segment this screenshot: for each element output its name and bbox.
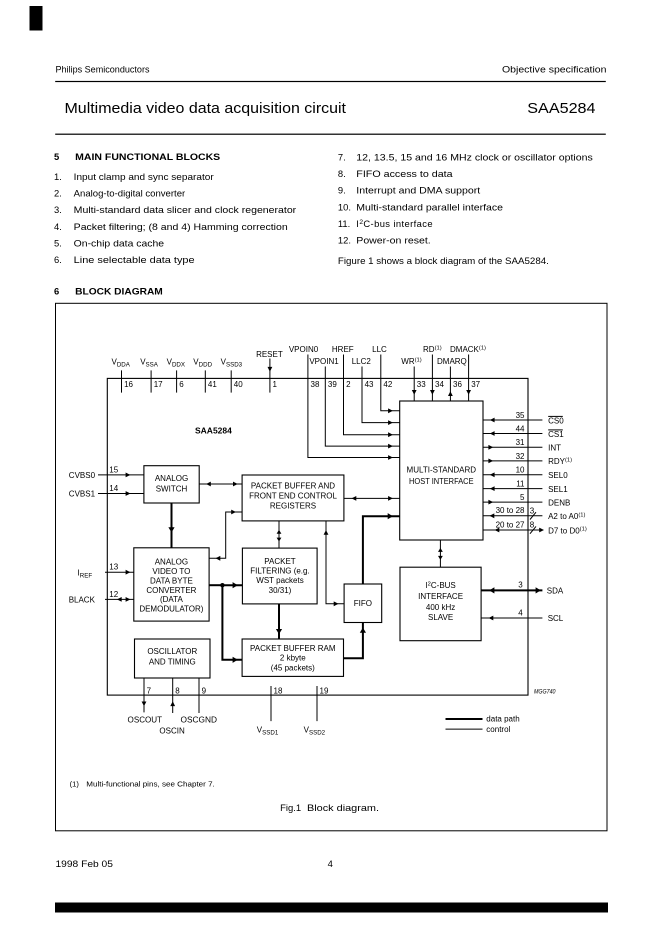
svg-text:Input clamp and sync separator: Input clamp and sync separator xyxy=(74,171,214,182)
svg-text:AND TIMING: AND TIMING xyxy=(149,657,196,666)
wire RAM to FIFO (data path) xyxy=(344,623,367,659)
block PACKET FILTERING xyxy=(242,548,317,604)
svg-text:12, 13.5, 15 and 16 MHz clock: 12, 13.5, 15 and 16 MHz clock or oscilla… xyxy=(356,152,593,163)
legend data path xyxy=(446,715,520,724)
svg-text:33: 33 xyxy=(417,380,426,389)
wire junction to packet buffer RAM (data path) xyxy=(222,585,242,663)
svg-text:3: 3 xyxy=(530,506,535,515)
svg-text:Multi-functional pins, see Cha: Multi-functional pins, see Chapter 7. xyxy=(86,780,215,789)
svg-text:LLC2: LLC2 xyxy=(352,357,372,366)
list items 7-12 xyxy=(338,152,593,246)
svg-text:1998 Feb 05: 1998 Feb 05 xyxy=(56,858,113,869)
svg-text:FIFO access to data: FIFO access to data xyxy=(356,168,453,179)
svg-text:HOST INTERFACE: HOST INTERFACE xyxy=(409,477,474,486)
svg-text:5.: 5. xyxy=(54,238,62,249)
svg-text:Objective specification: Objective specification xyxy=(502,63,607,74)
svg-text:SEL0: SEL0 xyxy=(548,471,568,480)
svg-text:Multi-standard parallel interf: Multi-standard parallel interface xyxy=(356,201,503,212)
svg-text:Block diagram.: Block diagram. xyxy=(307,802,379,813)
pin VDDX 6 xyxy=(167,358,185,393)
svg-text:12: 12 xyxy=(109,590,118,599)
svg-text:35: 35 xyxy=(516,411,525,420)
svg-text:Packet filtering; (8 and 4) Ha: Packet filtering; (8 and 4) Hamming corr… xyxy=(74,221,288,232)
svg-text:8: 8 xyxy=(175,686,180,695)
svg-text:SLAVE: SLAVE xyxy=(428,613,453,622)
svg-text:34: 34 xyxy=(435,380,444,389)
pin VSSA 17 xyxy=(140,358,163,393)
svg-text:OSCGND: OSCGND xyxy=(181,716,218,725)
wire packet buffer to host interface (bidirectional) xyxy=(344,496,400,501)
svg-text:MAIN FUNCTIONAL BLOCKS: MAIN FUNCTIONAL BLOCKS xyxy=(75,151,220,162)
svg-text:Multimedia video data acquisit: Multimedia video data acquisition circui… xyxy=(65,101,347,117)
pin VPOIN0 38 xyxy=(289,345,400,460)
svg-text:12.: 12. xyxy=(338,235,351,246)
svg-text:18: 18 xyxy=(274,686,283,695)
svg-text:SEL1: SEL1 xyxy=(548,485,568,494)
pin SCL 4 xyxy=(481,608,564,623)
svg-text:40: 40 xyxy=(234,380,243,389)
svg-text:5: 5 xyxy=(520,493,525,502)
svg-text:SCL: SCL xyxy=(548,614,564,623)
svg-text:On-chip data cache: On-chip data cache xyxy=(74,238,164,249)
svg-text:FILTERING (e.g.: FILTERING (e.g. xyxy=(250,567,309,576)
svg-text:44: 44 xyxy=(516,424,525,433)
svg-text:PACKET BUFFER AND: PACKET BUFFER AND xyxy=(251,482,335,491)
svg-text:14: 14 xyxy=(109,484,118,493)
svg-text:11.: 11. xyxy=(338,218,350,229)
svg-text:Line selectable data type: Line selectable data type xyxy=(74,254,195,265)
svg-text:2.: 2. xyxy=(54,188,62,199)
pin SEL0 10 xyxy=(483,466,568,480)
pin VSSD2 19 xyxy=(304,686,329,736)
pin VDDA 16 xyxy=(112,358,134,393)
svg-text:(1): (1) xyxy=(70,780,80,789)
svg-text:MGG740: MGG740 xyxy=(534,689,556,695)
svg-text:RESET: RESET xyxy=(256,350,283,359)
svg-text:19: 19 xyxy=(320,686,329,695)
block I2C-BUS INTERFACE 400 kHz SLAVE xyxy=(400,567,481,641)
svg-text:CS1: CS1 xyxy=(548,430,564,439)
svg-text:(DATA: (DATA xyxy=(160,595,183,604)
svg-text:CONVERTER: CONVERTER xyxy=(146,586,196,595)
bus A2 to A0 (pins 30 to 28) xyxy=(483,506,586,521)
svg-text:CVBS1: CVBS1 xyxy=(69,490,96,499)
svg-text:36: 36 xyxy=(453,380,462,389)
title rule xyxy=(55,134,606,135)
svg-text:CS0: CS0 xyxy=(548,416,564,425)
pin RESET 1 xyxy=(256,350,283,393)
pin LLC 42 xyxy=(372,345,400,413)
svg-text:Philips Semiconductors: Philips Semiconductors xyxy=(56,63,150,74)
svg-text:41: 41 xyxy=(208,380,217,389)
svg-text:FIFO: FIFO xyxy=(354,599,372,608)
svg-text:30/31): 30/31) xyxy=(269,586,292,595)
block U1 MULTI-STANDARD HOST INTERFACE xyxy=(400,401,483,540)
svg-text:3.: 3. xyxy=(54,204,62,215)
svg-text:7: 7 xyxy=(147,686,152,695)
block OSCILLATOR AND TIMING xyxy=(135,639,211,678)
pin CVBS1 14 xyxy=(69,484,144,499)
wire host interface to I2C interface (bidirectional) xyxy=(438,540,443,567)
svg-text:7.: 7. xyxy=(338,152,346,163)
svg-text:2: 2 xyxy=(346,380,351,389)
wire FIFO to host interface (data path) xyxy=(363,513,400,584)
svg-text:10.: 10. xyxy=(338,201,351,212)
pin LLC2 43 xyxy=(352,357,400,425)
svg-text:ANALOG: ANALOG xyxy=(155,558,188,567)
pin WR 33 xyxy=(401,357,426,401)
svg-text:Analog-to-digital converter: Analog-to-digital converter xyxy=(74,188,186,199)
svg-text:10: 10 xyxy=(516,466,525,475)
wire data converter to packet buffer (bidirectional elbow) xyxy=(209,510,242,561)
svg-text:11: 11 xyxy=(516,480,525,489)
svg-text:3: 3 xyxy=(518,581,523,590)
svg-text:30 to 28: 30 to 28 xyxy=(496,506,525,515)
svg-text:VPOIN1: VPOIN1 xyxy=(309,357,339,366)
svg-text:BLACK: BLACK xyxy=(69,596,96,605)
svg-text:DENB: DENB xyxy=(548,498,570,507)
pin RD 34 xyxy=(423,345,444,401)
svg-text:data path: data path xyxy=(486,715,519,724)
svg-text:9.: 9. xyxy=(338,185,346,196)
wire analog switch to packet buffer (bidirectional) xyxy=(199,482,242,487)
junction at converter output xyxy=(220,583,224,587)
svg-text:Power-on reset.: Power-on reset. xyxy=(356,235,430,246)
svg-text:37: 37 xyxy=(471,380,480,389)
block PACKET BUFFER AND FRONT END CONTROL REGISTERS xyxy=(242,475,344,521)
svg-text:HREF: HREF xyxy=(332,345,354,354)
svg-text:ANALOG: ANALOG xyxy=(155,474,188,483)
svg-text:SAA5284: SAA5284 xyxy=(527,101,595,117)
svg-text:4.: 4. xyxy=(54,221,62,232)
svg-text:CVBS0: CVBS0 xyxy=(69,471,96,480)
svg-text:FRONT END CONTROL: FRONT END CONTROL xyxy=(249,492,337,501)
svg-text:Fig.1: Fig.1 xyxy=(280,802,301,813)
pin DENB 5 xyxy=(483,493,570,507)
svg-text:Multi-standard data slicer and: Multi-standard data slicer and clock reg… xyxy=(74,204,296,215)
svg-text:DATA BYTE: DATA BYTE xyxy=(150,576,193,585)
svg-text:31: 31 xyxy=(516,438,525,447)
block ANALOG SWITCH xyxy=(144,466,199,503)
pin CS1 44 xyxy=(483,424,564,438)
svg-text:SAA5284: SAA5284 xyxy=(195,426,232,436)
svg-text:4: 4 xyxy=(518,608,523,617)
svg-text:4: 4 xyxy=(328,858,333,869)
svg-text:(45 packets): (45 packets) xyxy=(271,663,315,672)
svg-text:8.: 8. xyxy=(338,168,346,179)
svg-text:MULTI-STANDARD: MULTI-STANDARD xyxy=(407,466,477,475)
pin OSCGND 9 xyxy=(181,678,218,725)
svg-text:17: 17 xyxy=(154,380,163,389)
svg-text:BLOCK DIAGRAM: BLOCK DIAGRAM xyxy=(75,285,163,296)
block ANALOG VIDEO TO DATA BYTE CONVERTER (DATA DEMODULATOR) xyxy=(134,548,209,621)
wire analog switch to data converter (data path) xyxy=(168,503,174,548)
svg-text:2 kbyte: 2 kbyte xyxy=(280,654,306,663)
pin CS0 35 xyxy=(483,411,564,425)
pin DMACK 37 xyxy=(450,345,486,401)
pin CVBS0 15 xyxy=(69,465,144,480)
svg-text:42: 42 xyxy=(383,380,392,389)
svg-text:38: 38 xyxy=(311,380,320,389)
svg-text:43: 43 xyxy=(365,380,374,389)
svg-text:SWITCH: SWITCH xyxy=(156,485,188,494)
svg-text:6: 6 xyxy=(179,380,184,389)
pin DMARQ 36 xyxy=(437,357,467,401)
wire packet buffer to packet filtering (bidirectional) xyxy=(277,521,282,548)
wire junction to packet filtering (data path) xyxy=(222,582,242,588)
svg-text:SDA: SDA xyxy=(547,587,564,596)
pin VSSD3 40 xyxy=(221,358,244,393)
pin OSCOUT 7 xyxy=(128,678,163,725)
svg-text:I2C-BUS: I2C-BUS xyxy=(425,581,455,590)
svg-text:16: 16 xyxy=(124,380,133,389)
top-left black registration bar xyxy=(30,6,43,31)
svg-text:13: 13 xyxy=(109,563,118,572)
block FIFO xyxy=(344,584,382,623)
svg-text:VPOIN0: VPOIN0 xyxy=(289,345,319,354)
bottom black bar xyxy=(55,903,608,913)
svg-text:control: control xyxy=(486,725,510,734)
legend control xyxy=(446,725,511,734)
svg-text:REGISTERS: REGISTERS xyxy=(270,502,316,511)
pin BLACK 12 xyxy=(69,590,134,605)
svg-text:PACKET BUFFER RAM: PACKET BUFFER RAM xyxy=(250,644,336,653)
svg-text:OSCOUT: OSCOUT xyxy=(128,716,163,725)
pin RDY 32 xyxy=(483,452,572,466)
svg-text:9: 9 xyxy=(202,686,207,695)
svg-text:400 kHz: 400 kHz xyxy=(426,603,455,612)
svg-text:15: 15 xyxy=(109,465,118,474)
svg-text:WST packets: WST packets xyxy=(256,576,303,585)
list items 1-6 xyxy=(54,171,296,265)
pin INT 31 xyxy=(483,438,561,452)
pin VPOIN1 39 xyxy=(309,357,399,449)
pin HREF 2 xyxy=(332,345,400,437)
svg-text:1: 1 xyxy=(273,380,278,389)
svg-text:OSCIN: OSCIN xyxy=(159,727,185,736)
header rule xyxy=(55,81,606,82)
pin IREF 13 xyxy=(78,563,134,580)
svg-text:6: 6 xyxy=(54,285,59,296)
pin OSCIN 8 xyxy=(159,678,185,736)
svg-text:32: 32 xyxy=(516,452,525,461)
svg-text:OSCILLATOR: OSCILLATOR xyxy=(147,647,197,656)
svg-text:Interrupt and DMA support: Interrupt and DMA support xyxy=(356,185,480,196)
svg-text:8: 8 xyxy=(530,521,535,530)
figure frame xyxy=(56,303,608,831)
svg-text:I2C-bus interface: I2C-bus interface xyxy=(356,218,433,229)
svg-text:DEMODULATOR): DEMODULATOR) xyxy=(139,604,203,613)
chip outline SAA5284 xyxy=(107,378,528,695)
block PACKET BUFFER RAM 2 kbyte (45 packets) xyxy=(242,639,343,676)
svg-text:PACKET: PACKET xyxy=(264,557,296,566)
wire packet filtering to RAM (data path) xyxy=(276,604,282,639)
svg-text:DMARQ: DMARQ xyxy=(437,357,467,366)
svg-text:6.: 6. xyxy=(54,254,62,265)
svg-text:5: 5 xyxy=(54,151,59,162)
svg-text:LLC: LLC xyxy=(372,345,387,354)
svg-text:Figure 1 shows a block diagram: Figure 1 shows a block diagram of the SA… xyxy=(338,255,549,266)
svg-text:VIDEO TO: VIDEO TO xyxy=(152,567,190,576)
pin VSSD1 18 xyxy=(257,686,283,736)
svg-text:INTERFACE: INTERFACE xyxy=(418,592,463,601)
pin VDDD 41 xyxy=(193,358,217,393)
pin SEL1 11 xyxy=(483,480,568,494)
svg-text:39: 39 xyxy=(328,380,337,389)
svg-text:INT: INT xyxy=(548,444,561,453)
pin SDA 3 xyxy=(481,581,564,596)
wire packet buffer to FIFO (bidirectional elbow) xyxy=(324,521,345,606)
bus D7 to D0 (pins 20 to 27) xyxy=(483,520,587,535)
svg-text:20 to 27: 20 to 27 xyxy=(496,520,525,529)
wire data converter output (data path) xyxy=(209,584,222,586)
svg-text:1.: 1. xyxy=(54,171,62,182)
